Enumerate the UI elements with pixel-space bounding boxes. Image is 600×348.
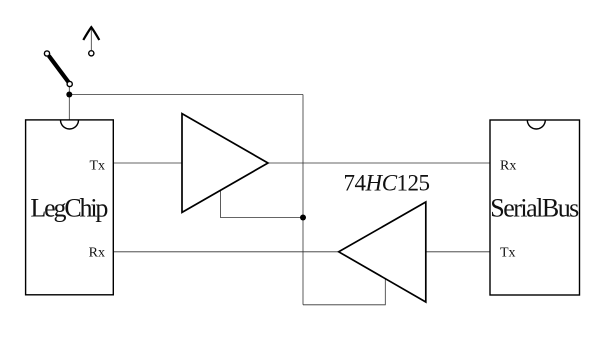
wire U2 enable pin bbox=[303, 279, 385, 305]
switch SW1 lever bbox=[49, 56, 69, 83]
buffer U2 (tri-state, left-pointing) bbox=[339, 202, 426, 302]
svg-text:74HC125: 74HC125 bbox=[344, 171, 431, 196]
wire top from switch pole to vertical enable bus bbox=[69, 94, 303, 96]
switch SW1 pole contact bbox=[67, 81, 72, 86]
svg-text:LegChip: LegChip bbox=[30, 193, 108, 222]
chip SerialBus notch bbox=[527, 120, 545, 129]
chip LegChip notch bbox=[61, 120, 79, 129]
buffer U1 (tri-state, right-pointing) bbox=[182, 114, 268, 213]
svg-text:SerialBus: SerialBus bbox=[490, 193, 579, 222]
junction dot on enable bus bbox=[300, 215, 306, 221]
switch SW1 contact left bbox=[44, 51, 49, 56]
switch SW1 contact right bbox=[89, 51, 94, 56]
wire switch pole to LegChip top bbox=[68, 87, 70, 121]
wire buffer U1 output to SerialBus Rx bbox=[268, 162, 490, 164]
wire vertical enable bus bbox=[302, 95, 304, 305]
wire LegChip Rx to buffer U2 output bbox=[113, 251, 338, 253]
wire LegChip Tx to buffer U1 input bbox=[113, 162, 182, 164]
wire arrow stem bbox=[90, 28, 92, 51]
svg-text:Rx: Rx bbox=[500, 158, 516, 173]
svg-text:Tx: Tx bbox=[89, 158, 105, 173]
wire buffer U2 input to SerialBus Tx bbox=[426, 251, 490, 253]
svg-text:Tx: Tx bbox=[500, 245, 516, 260]
switch SW1 pole junction dot bbox=[66, 92, 72, 98]
chip LegChip body bbox=[26, 120, 114, 295]
chip SerialBus body bbox=[490, 120, 580, 295]
arrowhead up bbox=[83, 27, 99, 40]
wire U1 enable pin bbox=[221, 190, 304, 217]
svg-text:Rx: Rx bbox=[89, 245, 105, 260]
